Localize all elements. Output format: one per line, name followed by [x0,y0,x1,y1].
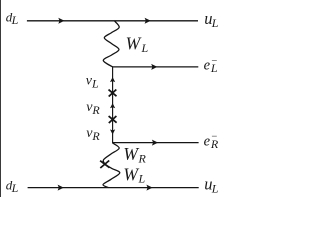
svg-text:e: e [204,133,211,149]
svg-text:R: R [91,103,100,117]
svg-text:L: L [11,181,19,195]
svg-text:L: L [11,13,19,27]
arrow down (nu_R) [110,129,115,134]
svg-text:L: L [211,181,219,195]
arrow up (nu_R) [110,103,115,108]
arrow on bottom line (left) [58,185,64,191]
svg-text:W: W [123,144,139,164]
svg-text:R: R [138,151,147,165]
boson W_R / W_L bottom wavy line [103,143,120,188]
arrow on top line (right) [145,18,151,24]
arrow on eL line [151,64,157,70]
wire: eR line [112,142,199,144]
arrow on bottom line (right) [146,185,152,191]
svg-text:R: R [210,137,219,151]
mass insertion X1 [109,90,117,97]
svg-text:L: L [91,76,99,90]
wire: top fermion line dL to uL [27,20,198,22]
arrow on eR line [152,140,158,146]
svg-text:R: R [91,129,100,143]
svg-text:W: W [126,33,142,53]
arrow on top line (left) [58,18,64,24]
arrow up (nu_L) [110,77,115,82]
mass insertion X2 [109,116,117,123]
svg-text:L: L [138,172,146,186]
wire: bottom fermion line dL to uL [28,187,199,189]
wire: eL line [112,66,198,68]
svg-text:L: L [141,41,149,55]
svg-text:W: W [123,165,139,185]
boson W_L top wavy line [103,21,119,67]
svg-text:L: L [210,61,218,75]
svg-text:L: L [211,16,219,30]
left page border [0,0,2,197]
mass insertion X3 on bottom wavy (WL-WR mixing) [100,161,109,169]
svg-text:e: e [204,57,211,73]
wire: neutrino internal vertical line [112,67,114,143]
